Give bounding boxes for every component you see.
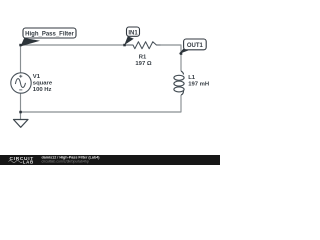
svg-text:High_Pass_Filter: High_Pass_Filter (25, 32, 74, 38)
svg-text:197 Ω: 197 Ω (135, 61, 151, 67)
svg-text:R1: R1 (139, 54, 147, 60)
svg-text:V1: V1 (33, 74, 41, 80)
net flag High_Pass_Filter (23, 28, 76, 38)
wire left vertical from node A down to V1 top (20, 45, 22, 73)
net flag IN1 (127, 27, 140, 36)
svg-text:LAB: LAB (23, 159, 34, 164)
svg-text:OUT1: OUT1 (187, 43, 204, 49)
watermark bar (0, 155, 220, 165)
junction dot OUT1 node (180, 52, 183, 55)
svg-text:circuitlab.com/c/3krbpu/lab4hp: circuitlab.com/c/3krbpu/lab4hp (42, 159, 89, 163)
flag pointer High_Pass_Filter (21, 38, 41, 46)
wire from L1 bottom to bottom-right corner and left along bottom (21, 95, 182, 112)
wire from V1 bottom to bottom-left junction (20, 93, 22, 112)
resistor R1 (125, 42, 161, 49)
junction dot bottom-left (19, 111, 22, 114)
junction dot node A (19, 44, 22, 47)
flag pointer IN1 (124, 36, 134, 45)
ground (14, 120, 29, 128)
svg-text:197 mH: 197 mH (188, 82, 209, 88)
svg-text:100 Hz: 100 Hz (33, 87, 52, 93)
voltage source V1 (11, 73, 31, 93)
svg-text:square: square (33, 80, 53, 86)
wire stub to ground (20, 112, 22, 120)
flag pointer OUT1 (179, 48, 189, 54)
inductor L1 (174, 71, 184, 95)
svg-text:IN1: IN1 (128, 30, 138, 36)
wire top horizontal from node A to R1 (21, 44, 125, 46)
svg-text:L1: L1 (188, 75, 196, 81)
net flag OUT1 (184, 39, 207, 50)
wire from R1 to top-right corner and down to L1 (161, 45, 182, 71)
junction dot IN1 node (123, 44, 126, 47)
